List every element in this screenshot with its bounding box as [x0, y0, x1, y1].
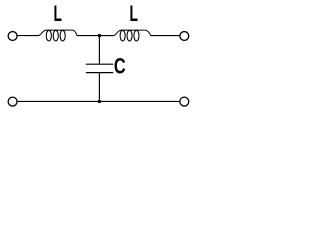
wire: node A down to capacitor C top plate: [98, 36, 100, 65]
wire: bottom rail right (node B to bottom-right terminal): [99, 100, 179, 102]
node B junction dot (bottom): [98, 100, 101, 103]
terminal circle top-left: [8, 32, 17, 41]
label L (left inductor value): [54, 1, 62, 26]
inductor L1: [39, 30, 78, 41]
label L (right inductor value): [130, 1, 138, 26]
svg-text:L: L: [130, 1, 138, 26]
inductor L2: [114, 30, 151, 41]
wire: top-left terminal to L1: [17, 35, 39, 37]
svg-text:L: L: [54, 1, 62, 26]
node A junction dot (top): [98, 34, 101, 37]
svg-text:C: C: [114, 54, 126, 79]
label C (capacitor value): [114, 54, 126, 79]
terminal circle bottom-right: [180, 97, 189, 106]
wire: L1 to node A: [77, 35, 99, 37]
capacitor C: [86, 64, 113, 72]
wire: capacitor C bottom plate down to node B: [98, 73, 100, 102]
wire: L2 to top-right terminal: [151, 35, 180, 37]
wire: bottom rail left (bottom-left terminal to node B): [17, 100, 99, 102]
wire: node A to L2: [99, 35, 113, 37]
terminal circle top-right: [180, 32, 189, 41]
terminal circle bottom-left: [8, 97, 17, 106]
